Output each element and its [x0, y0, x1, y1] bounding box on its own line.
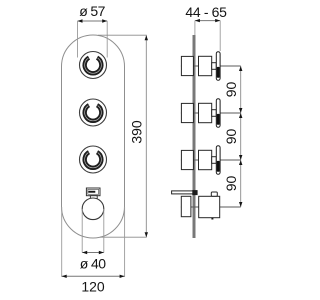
handle bar [216, 52, 220, 81]
dim 44-65 line [195, 20, 220, 22]
side knob row 3 [181, 146, 220, 175]
knob 2 outer circle [80, 99, 107, 126]
svg-text:44 - 65: 44 - 65 [185, 4, 227, 20]
wall [193, 35, 196, 238]
svg-text:ø 40: ø 40 [80, 255, 106, 271]
row 1 centerline [181, 65, 241, 67]
svg-text:ø 57: ø 57 [79, 3, 105, 19]
neck [90, 196, 97, 199]
dim o40 extension lines [81, 209, 83, 253]
dim 90 line [240, 66, 242, 207]
svg-text:90: 90 [223, 82, 239, 98]
front body [199, 196, 220, 217]
svg-text:120: 120 [81, 278, 105, 294]
svg-text:90: 90 [223, 176, 239, 192]
front plate (pill) [62, 35, 125, 238]
knob 2 U-band [85, 105, 102, 121]
dim o40 line [82, 252, 104, 254]
svg-text:390: 390 [129, 120, 145, 144]
dim o57 extension lines [77, 21, 79, 58]
supply pipe [172, 191, 193, 194]
svg-text:90: 90 [223, 129, 239, 145]
top cap [211, 192, 217, 196]
row 2 centerline [181, 112, 241, 114]
side knob row 1 [181, 52, 220, 81]
bottom tick [211, 218, 213, 220]
wall fitting [192, 190, 197, 195]
dim 120 extension lines [61, 207, 63, 277]
knob 1 U-band [85, 58, 102, 74]
row 3 centerline [181, 159, 241, 161]
stem [212, 63, 217, 70]
knob 3 outer circle [80, 146, 107, 173]
row 4 outlet [172, 190, 220, 219]
dark dash in plate [88, 191, 95, 193]
knob 1 outer circle [80, 52, 107, 79]
front body [199, 56, 212, 75]
dim 44-65 extension lines [194, 21, 196, 35]
knob 3 U-band [85, 152, 102, 168]
dim 120 line [62, 275, 125, 277]
side knob row 2 [181, 99, 220, 128]
dim 390 extension+line [98, 35, 146, 237]
label plate rectangle [86, 188, 100, 196]
back body [181, 56, 193, 75]
row 4 centerline [181, 206, 241, 208]
handle black part [217, 67, 220, 78]
diverter circle (o40) [82, 198, 104, 220]
dim o57 line [78, 20, 108, 22]
back body [181, 196, 191, 216]
